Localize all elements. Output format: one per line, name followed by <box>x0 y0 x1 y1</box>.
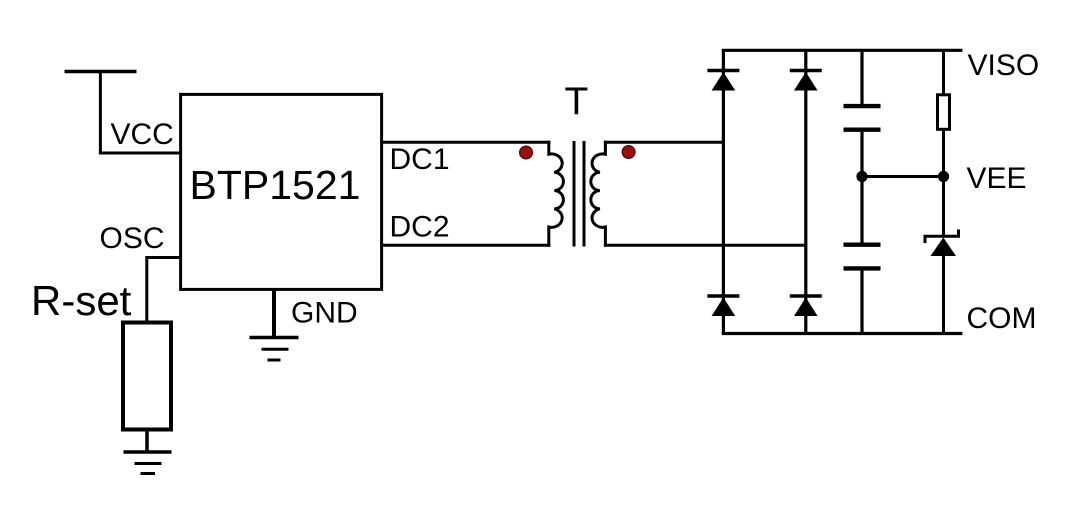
ground symbol GND <box>250 338 299 361</box>
ground symbol below R-set <box>124 452 172 474</box>
resistor R-set <box>123 323 171 430</box>
polarity dot secondary <box>622 146 635 159</box>
svg-text:DC2: DC2 <box>390 211 450 244</box>
wire zener to COM rail <box>942 256 945 334</box>
wire bridge leg 1 <box>722 50 725 333</box>
wire between C1 and C2 <box>860 132 863 243</box>
polarity dot primary <box>520 146 533 159</box>
svg-text:GND: GND <box>291 297 358 330</box>
wire OSC pin <box>147 258 181 323</box>
svg-text:DC1: DC1 <box>390 143 450 176</box>
wire GND pin <box>272 289 276 337</box>
diode D2 <box>790 71 822 91</box>
svg-text:VEE: VEE <box>967 162 1027 195</box>
svg-text:T: T <box>565 81 589 124</box>
diode D4 <box>790 296 822 316</box>
svg-text:COM: COM <box>967 302 1037 335</box>
svg-text:BTP1521: BTP1521 <box>190 162 361 208</box>
VCC terminal bar <box>65 70 137 74</box>
zener diode Z1 <box>925 230 959 257</box>
transformer core <box>573 141 576 247</box>
wire R-set to ground <box>145 430 149 453</box>
wire DC1 <box>382 141 551 144</box>
IC U1 BTP1521 box <box>181 94 382 289</box>
wire top rail VISO <box>722 49 963 52</box>
wire DC2 <box>382 244 551 247</box>
transformer T secondary winding <box>591 141 606 247</box>
wire secondary top to bridge <box>604 141 724 144</box>
wire secondary bottom to bridge <box>604 244 806 247</box>
diode D3 <box>707 296 739 316</box>
wire VCC to chip <box>99 152 181 155</box>
wire output leg top <box>942 50 945 95</box>
capacitor C2 <box>844 245 881 269</box>
wire bridge leg 2 <box>804 50 807 333</box>
svg-text:VISO: VISO <box>968 49 1040 82</box>
transformer T primary winding <box>549 141 564 247</box>
resistor R1 <box>938 95 950 130</box>
wire capacitor leg top <box>860 50 863 104</box>
svg-text:VCC: VCC <box>111 118 174 151</box>
wire capacitor leg bottom <box>860 270 863 333</box>
junction dot at output leg <box>938 171 949 182</box>
wire VEE <box>862 175 944 178</box>
wire VCC vertical drop <box>99 72 102 154</box>
svg-text:OSC: OSC <box>100 222 165 255</box>
svg-text:R-set: R-set <box>31 277 132 324</box>
diode D1 <box>707 71 739 91</box>
junction dot at capacitor leg <box>856 171 867 182</box>
wire resistor to zener <box>942 129 945 237</box>
wire bottom rail COM <box>722 332 963 335</box>
capacitor C1 <box>844 106 881 130</box>
